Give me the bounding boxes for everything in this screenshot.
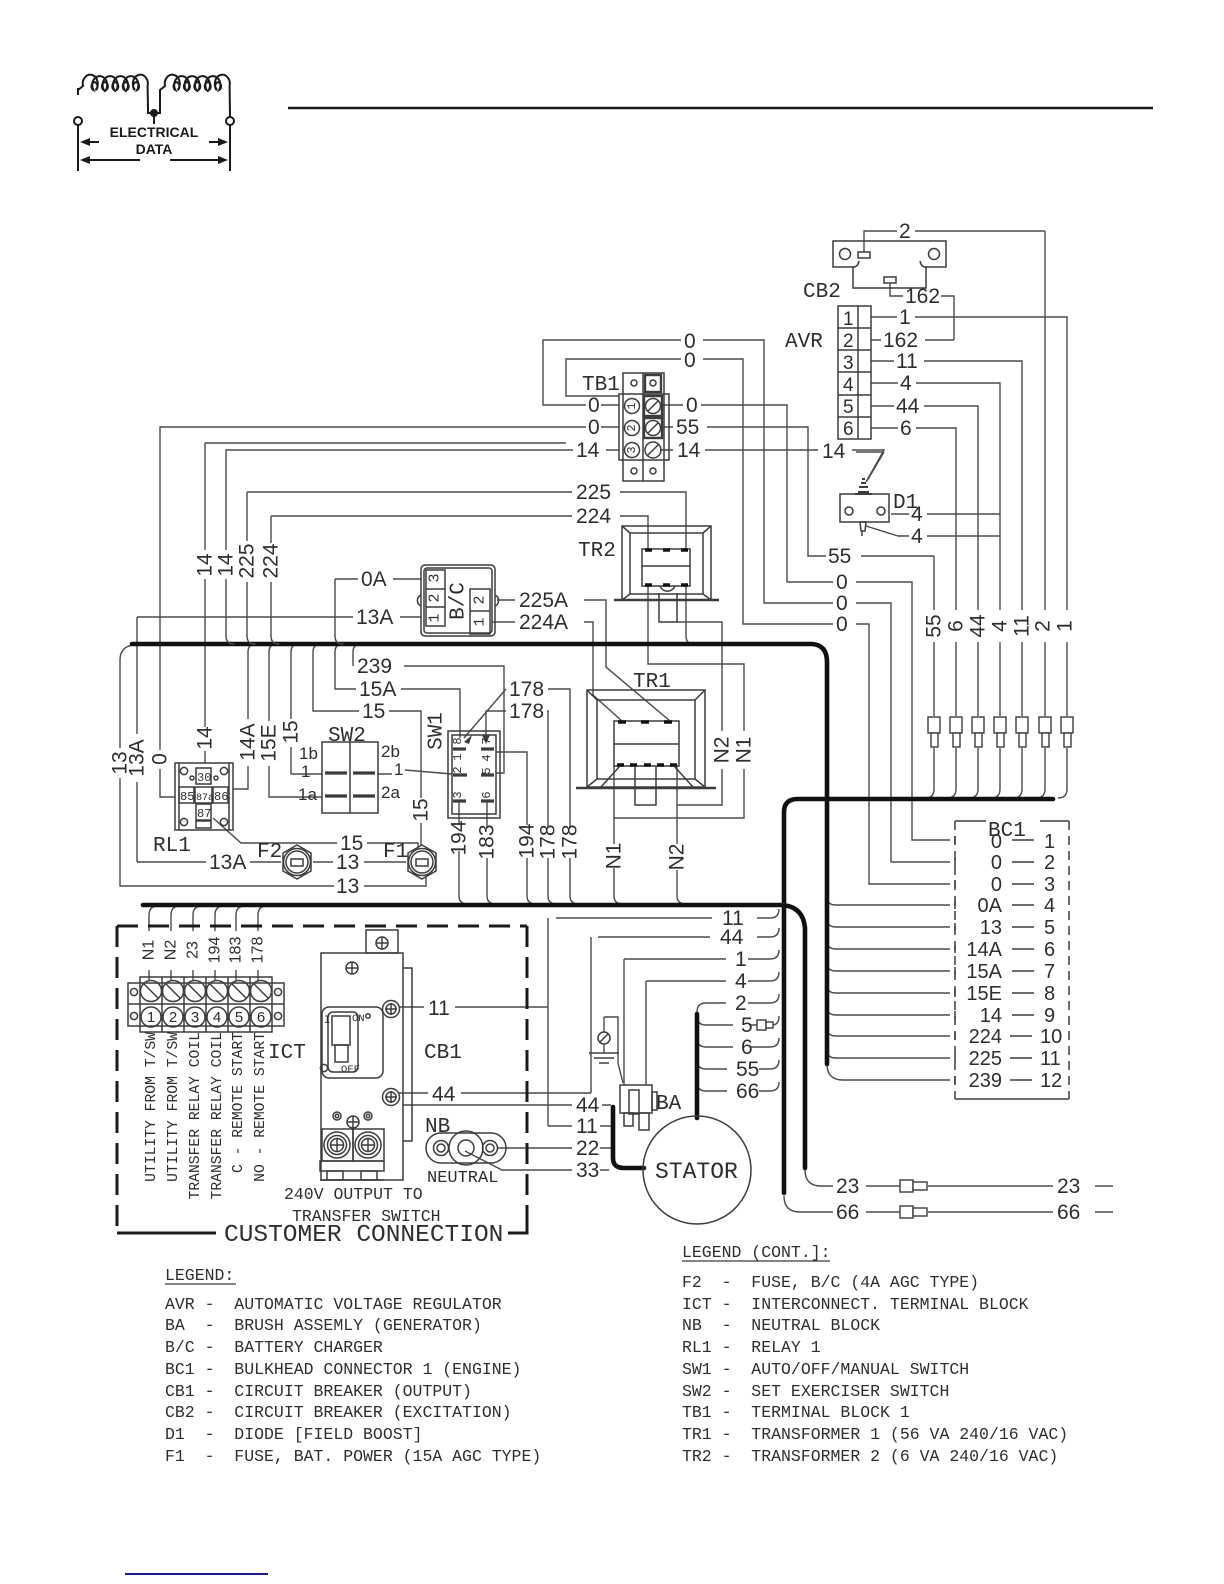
svg-text:TR1 - TRANSFORMER 1 (56 VA 24: TR1 - TRANSFORMER 1 (56 VA 240/16 VAC) <box>682 1425 1068 1444</box>
wire 224A B/C to TR1 <box>492 622 622 721</box>
svg-text:CB2: CB2 <box>803 281 841 304</box>
wire BC1 row7 15A <box>827 963 950 971</box>
transformer TR1 frame <box>587 690 705 787</box>
svg-text:1: 1 <box>625 402 639 409</box>
wire 4 D1 to riser <box>891 513 1000 515</box>
svg-text:N1: N1 <box>733 737 756 764</box>
svg-text:11: 11 <box>576 1115 598 1138</box>
svg-text:4: 4 <box>900 372 912 395</box>
svg-text:2: 2 <box>1044 852 1055 874</box>
svg-text:4: 4 <box>911 503 923 526</box>
svg-text:55: 55 <box>736 1058 759 1081</box>
svg-text:2: 2 <box>472 595 489 604</box>
neutral block NB <box>426 1133 506 1163</box>
svg-text:224A: 224A <box>519 611 568 634</box>
voltage regulator AVR terminal strip <box>838 306 871 439</box>
wire 13A B/C to left riser <box>137 617 421 862</box>
svg-text:5: 5 <box>741 1014 753 1037</box>
svg-text:15A: 15A <box>359 678 396 701</box>
svg-text:33: 33 <box>576 1159 599 1182</box>
svg-text:2: 2 <box>735 992 747 1015</box>
connector splice wire 66 <box>900 1206 913 1218</box>
wire ground strap to BA <box>604 1017 623 1083</box>
transformer TR2 coil <box>642 549 690 586</box>
svg-text:11: 11 <box>1011 615 1034 637</box>
svg-text:1: 1 <box>451 753 465 760</box>
wire N1 TR1 lead to harness <box>614 766 623 904</box>
svg-text:NEUTRAL: NEUTRAL <box>427 1169 498 1188</box>
svg-text:55: 55 <box>676 416 699 439</box>
svg-text:2a: 2a <box>381 783 400 802</box>
wire 178 SW1-8 row <box>464 689 579 904</box>
wire 178 harness to ICT-6 <box>258 906 267 981</box>
svg-text:22: 22 <box>576 1137 599 1160</box>
svg-text:0: 0 <box>836 571 848 594</box>
harness bold stator top lead <box>695 1014 700 1118</box>
wire BC1 row8 15E <box>827 985 950 993</box>
wire TR2 lead right to harness <box>686 586 694 644</box>
svg-text:2: 2 <box>1032 620 1055 632</box>
svg-text:6: 6 <box>480 791 494 798</box>
battery charger B/C <box>421 565 495 636</box>
svg-text:44: 44 <box>576 1094 600 1117</box>
wire 0 net-A TB1-1 left to BC1-2 <box>543 340 950 862</box>
svg-text:AVR: AVR <box>785 331 823 354</box>
svg-text:0: 0 <box>991 831 1002 853</box>
svg-text:14: 14 <box>576 439 600 462</box>
svg-text:86: 86 <box>214 790 228 804</box>
svg-text:N2: N2 <box>666 844 689 871</box>
svg-text:STATOR: STATOR <box>655 1159 738 1185</box>
wire 225A B/C to TR1 <box>497 600 670 721</box>
svg-text:5: 5 <box>235 1009 243 1026</box>
svg-text:55: 55 <box>923 614 946 637</box>
wire 23 harness to ICT-3 <box>193 906 202 981</box>
svg-text:F1: F1 <box>383 841 408 864</box>
svg-text:178: 178 <box>559 824 582 859</box>
svg-text:0: 0 <box>149 753 172 765</box>
svg-text:225: 225 <box>236 543 259 578</box>
transformer TR1 coil <box>614 721 679 766</box>
svg-text:1: 1 <box>735 948 747 971</box>
svg-text:178: 178 <box>509 700 544 723</box>
svg-text:0: 0 <box>836 592 848 615</box>
svg-text:SW1 - AUTO/OFF/MANUAL SWITCH: SW1 - AUTO/OFF/MANUAL SWITCH <box>682 1360 969 1379</box>
wire 15E harness to SW2-1a <box>269 644 322 797</box>
wire 1 BA to harness <box>624 950 779 1085</box>
svg-text:4: 4 <box>843 375 854 396</box>
svg-text:F2: F2 <box>257 841 282 864</box>
svg-text:194: 194 <box>516 823 539 858</box>
svg-text:4: 4 <box>480 754 494 761</box>
svg-text:1: 1 <box>472 617 489 626</box>
svg-text:3: 3 <box>843 353 854 374</box>
svg-text:3: 3 <box>451 791 465 798</box>
svg-text:15: 15 <box>280 720 303 743</box>
CB1 base <box>320 1161 384 1171</box>
logo coil left <box>78 75 148 110</box>
wire 66 stator row <box>697 1082 779 1091</box>
svg-text:NO - REMOTE START: NO - REMOTE START <box>253 1032 269 1182</box>
svg-text:1: 1 <box>899 306 911 329</box>
logo center junction wires <box>148 110 160 124</box>
CB1 screw terminal 44 <box>383 1089 400 1106</box>
svg-text:66: 66 <box>736 1080 759 1103</box>
exerciser switch SW2 <box>322 742 378 813</box>
svg-text:ICT: ICT <box>268 1042 306 1065</box>
svg-text:162: 162 <box>883 329 918 352</box>
svg-text:14A: 14A <box>966 939 1002 961</box>
logo arrows row2 <box>87 159 221 161</box>
svg-text:4: 4 <box>213 1009 221 1026</box>
svg-text:AVR - AUTOMATIC VOLTAGE REGUL: AVR - AUTOMATIC VOLTAGE REGULATOR <box>165 1295 502 1314</box>
svg-text:15E: 15E <box>966 983 1002 1005</box>
wire SW2 to SW1-2 <box>378 770 452 774</box>
svg-text:BA: BA <box>656 1093 682 1116</box>
svg-text:13: 13 <box>980 917 1002 939</box>
svg-text:UTILITY FROM T/SW: UTILITY FROM T/SW <box>144 1032 160 1182</box>
wire 224 to TR2 <box>271 516 648 636</box>
svg-text:1: 1 <box>147 1009 155 1026</box>
svg-text:BC1 - BULKHEAD CONNECTOR 1 (E: BC1 - BULKHEAD CONNECTOR 1 (ENGINE) <box>165 1360 521 1379</box>
wire 4 D1 cathode to riser <box>866 526 1000 536</box>
svg-text:0: 0 <box>836 613 848 636</box>
connector splice on riser 4 <box>994 717 1006 733</box>
connector splice on riser 1 <box>1061 717 1073 733</box>
wire BC1 row10 224 <box>827 1028 950 1036</box>
wire 55 TB1-2 right to harness <box>662 427 934 789</box>
svg-text:DATA: DATA <box>136 141 173 157</box>
logo arrows row1 <box>87 141 221 143</box>
wire 23 harness to right <box>805 1170 1113 1186</box>
customer connection dashed border <box>117 925 527 928</box>
svg-text:13A: 13A <box>209 851 246 874</box>
generator stator <box>643 1116 751 1224</box>
wire 15 RL1-87 to F1 top <box>213 818 418 848</box>
svg-text:2: 2 <box>169 1009 177 1026</box>
svg-text:4: 4 <box>735 970 747 993</box>
svg-text:4: 4 <box>911 525 923 548</box>
svg-text:178: 178 <box>250 937 267 964</box>
svg-text:1a: 1a <box>298 785 317 804</box>
wire 14 AVR area to D1 anode <box>856 452 884 481</box>
svg-text:178: 178 <box>537 824 560 859</box>
svg-text:225: 225 <box>576 481 611 504</box>
svg-text:1: 1 <box>301 762 310 781</box>
svg-text:0: 0 <box>686 394 698 417</box>
svg-text:23: 23 <box>836 1175 859 1198</box>
svg-text:N2: N2 <box>163 940 180 961</box>
svg-text:0A: 0A <box>978 895 1003 917</box>
svg-text:11: 11 <box>896 350 918 373</box>
wire 1 AVR-1 to riser <box>871 317 1067 798</box>
svg-text:8: 8 <box>1044 983 1055 1005</box>
svg-text:2: 2 <box>427 593 444 602</box>
bottom blue rule <box>125 1573 268 1575</box>
bulkhead connector BC1 box <box>955 821 1069 1099</box>
harness bold wire right <box>784 799 1053 1193</box>
svg-text:ICT - INTERCONNECT. TERMINAL: ICT - INTERCONNECT. TERMINAL BLOCK <box>682 1295 1029 1314</box>
svg-text:66: 66 <box>1057 1201 1080 1224</box>
svg-text:ELECTRICAL: ELECTRICAL <box>110 124 199 140</box>
svg-text:224: 224 <box>969 1026 1002 1048</box>
wire 13A riser to F2 <box>137 861 281 863</box>
svg-text:B/C: B/C <box>448 582 471 620</box>
BC1 row ticks <box>954 836 956 1084</box>
svg-text:66: 66 <box>836 1201 859 1224</box>
wire 4 AVR-4 to riser <box>871 383 1000 798</box>
svg-text:7: 7 <box>1044 961 1055 983</box>
wire BC1 row6 14A <box>827 941 950 949</box>
svg-text:4: 4 <box>1044 895 1055 917</box>
svg-text:TR2: TR2 <box>578 540 616 563</box>
wire 44 stator lead <box>403 1104 611 1106</box>
wire 11 CB1 to stator and harness <box>399 909 779 1126</box>
wire 22 NB to stator <box>497 1147 611 1149</box>
circuit breaker CB1 body <box>366 930 398 953</box>
wire BC1 row4 0A <box>827 897 950 905</box>
svg-text:44: 44 <box>967 614 990 638</box>
wire N2 TR1 lead to harness <box>677 766 686 904</box>
wire 0 net-B TB1-1 right to BC1-1 <box>662 405 950 840</box>
connector splice on riser 6 <box>950 717 962 733</box>
svg-text:1: 1 <box>843 309 854 330</box>
svg-text:240V OUTPUT TO: 240V OUTPUT TO <box>284 1185 423 1204</box>
svg-text:11: 11 <box>428 997 450 1020</box>
connector splice on riser 2 <box>1039 717 1051 733</box>
wire N2 harness to ICT-2 <box>171 906 180 981</box>
wire 239 harness to SW1-5 <box>353 644 504 773</box>
wire BC1 row5 13 <box>827 919 950 927</box>
svg-text:0: 0 <box>991 874 1002 896</box>
logo right terminal <box>226 117 234 125</box>
svg-text:UTILITY FROM T/SW: UTILITY FROM T/SW <box>166 1032 182 1182</box>
CB1 output lugs <box>322 1129 353 1161</box>
svg-text:CB1: CB1 <box>424 1042 462 1065</box>
transformer TR2 pedestal <box>659 593 677 622</box>
ICT screws row <box>141 981 162 1002</box>
svg-text:44: 44 <box>896 395 920 418</box>
svg-text:44: 44 <box>432 1083 456 1106</box>
wire 178 SW1-7 row <box>486 711 557 904</box>
svg-text:TRANSFER RELAY COIL: TRANSFER RELAY COIL <box>188 1032 204 1199</box>
svg-text:1: 1 <box>394 760 403 779</box>
connector splice on riser 44 <box>972 717 984 733</box>
svg-text:TRANSFER RELAY COIL: TRANSFER RELAY COIL <box>210 1032 226 1199</box>
wire 0A B/C to harness <box>335 579 421 636</box>
svg-text:N1: N1 <box>141 940 158 961</box>
svg-text:3: 3 <box>625 446 639 453</box>
fuse F2 <box>283 845 311 879</box>
svg-text:15A: 15A <box>966 961 1002 983</box>
svg-text:SW1: SW1 <box>426 712 449 750</box>
svg-text:SW2: SW2 <box>328 725 366 748</box>
brush assembly BA <box>620 1085 652 1113</box>
switch SW1 <box>448 731 500 818</box>
wire 66 harness to right <box>784 1196 1113 1212</box>
svg-text:C - REMOTE START: C - REMOTE START <box>231 1032 247 1173</box>
svg-text:85: 85 <box>180 790 194 804</box>
svg-text:1b: 1b <box>299 744 318 763</box>
BC1 row dashes <box>1010 840 1034 1080</box>
svg-text:I: I <box>324 1015 331 1027</box>
svg-text:RL1: RL1 <box>153 835 191 858</box>
svg-text:2b: 2b <box>381 742 400 761</box>
svg-text:10: 10 <box>1040 1026 1062 1048</box>
terminal block ICT <box>128 983 284 1026</box>
svg-text:87a: 87a <box>196 793 214 804</box>
TB1 screw 2 <box>644 418 662 438</box>
svg-text:6: 6 <box>741 1036 753 1059</box>
wire 33 NB to stator <box>465 1151 609 1170</box>
svg-text:0: 0 <box>991 852 1002 874</box>
svg-text:15E: 15E <box>258 724 281 761</box>
harness bold wire upper <box>132 644 827 1064</box>
svg-text:N2: N2 <box>711 737 734 764</box>
svg-text:162: 162 <box>905 285 940 308</box>
CB1 screw terminal 11 <box>383 1001 400 1018</box>
svg-text:3: 3 <box>1044 874 1055 896</box>
TB1 pole circles 1-3 <box>625 399 640 414</box>
terminal block TB1 <box>623 373 664 481</box>
svg-text:225A: 225A <box>519 589 568 612</box>
svg-text:NB: NB <box>425 1116 450 1139</box>
svg-text:5: 5 <box>843 397 854 418</box>
svg-text:13: 13 <box>336 875 359 898</box>
harness merge curves upper <box>160 636 343 644</box>
svg-text:12: 12 <box>1040 1070 1062 1092</box>
connector splice wire 23 <box>900 1180 913 1192</box>
svg-text:CB2 - CIRCUIT BREAKER (EXCITA: CB2 - CIRCUIT BREAKER (EXCITATION) <box>165 1403 512 1422</box>
logo arrowheads <box>80 138 90 146</box>
connector splice wire 5 <box>757 1020 766 1030</box>
svg-text:44: 44 <box>720 926 744 949</box>
TB1 screw 1 <box>644 396 662 416</box>
wire 225 to TR2 <box>247 492 686 636</box>
svg-text:7: 7 <box>480 737 494 744</box>
svg-text:B/C - BATTERY CHARGER: B/C - BATTERY CHARGER <box>165 1338 383 1357</box>
transformer TR1 pedestal and fan <box>601 766 693 805</box>
arrowhead 178 to SW1-8 <box>464 735 472 744</box>
svg-text:15: 15 <box>362 700 385 723</box>
svg-text:224: 224 <box>576 505 611 528</box>
wire 14A harness to RL1-86 <box>233 644 256 789</box>
svg-text:NB - NEUTRAL BLOCK: NB - NEUTRAL BLOCK <box>682 1316 880 1335</box>
svg-text:TB1 - TERMINAL BLOCK 1: TB1 - TERMINAL BLOCK 1 <box>682 1403 910 1422</box>
wire 15 harness to SW2-1 <box>291 644 322 774</box>
CB1 rocker switch <box>322 1007 383 1078</box>
TB1 screw 3 <box>645 442 661 458</box>
logo coil right <box>160 75 230 117</box>
svg-text:14A: 14A <box>237 723 260 760</box>
circuit breaker CB2 <box>833 241 946 288</box>
wire 0 net-D TB1-2 left to RL1-85 <box>160 427 619 797</box>
svg-text:14: 14 <box>980 1005 1002 1027</box>
wire 0 net-C TB1 top to BC1-3 <box>566 359 950 884</box>
ground symbol <box>598 1032 610 1044</box>
svg-text:55: 55 <box>828 545 851 568</box>
svg-text:183: 183 <box>228 937 245 964</box>
svg-text:13A: 13A <box>356 606 393 629</box>
arrowhead 178 to SW1-7 <box>482 735 490 744</box>
fuse F1 <box>408 845 436 879</box>
svg-text:CB1 - CIRCUIT BREAKER (OUTPUT: CB1 - CIRCUIT BREAKER (OUTPUT) <box>165 1382 472 1401</box>
wire 2 CB2 to riser <box>864 231 1045 798</box>
svg-text:6: 6 <box>945 620 968 632</box>
logo left terminal <box>74 117 82 125</box>
svg-text:8: 8 <box>451 737 465 744</box>
wire BC1 row9 14 <box>827 1007 950 1015</box>
svg-text:9: 9 <box>1044 1005 1055 1027</box>
svg-text:LEGEND (CONT.]:: LEGEND (CONT.]: <box>682 1243 831 1262</box>
svg-text:0: 0 <box>684 349 696 372</box>
svg-text:F1 - FUSE, BAT. POWER (15A A: F1 - FUSE, BAT. POWER (15A AGC TYPE) <box>165 1447 541 1466</box>
svg-text:23: 23 <box>1057 1175 1080 1198</box>
svg-text:SW2 - SET EXERCISER SWITCH: SW2 - SET EXERCISER SWITCH <box>682 1382 949 1401</box>
diode D1 <box>840 494 889 522</box>
wire 2 stator to harness <box>697 994 779 1012</box>
svg-text:0: 0 <box>588 394 600 417</box>
connector splice on riser 11 <box>1016 717 1028 733</box>
harness bold wire lower <box>143 905 805 1168</box>
svg-text:3: 3 <box>191 1009 199 1026</box>
wire 15A harness to SW1-8 <box>335 644 460 738</box>
svg-text:225: 225 <box>969 1048 1002 1070</box>
relay RL1 <box>175 763 233 830</box>
transformer TR2 frame <box>622 526 711 600</box>
wire 14 TB1-3 left to RL1-30 <box>205 443 619 763</box>
svg-text:14: 14 <box>194 726 217 750</box>
wire 5 stator row <box>697 1016 779 1025</box>
wire TR2 lead left to N1 loop <box>614 586 744 818</box>
wire BC1 row12 239 <box>827 1064 950 1080</box>
wire 15 harness to F1 <box>313 644 421 845</box>
svg-text:1: 1 <box>1044 831 1055 853</box>
svg-text:4: 4 <box>989 620 1012 632</box>
svg-text:13A: 13A <box>126 739 149 776</box>
svg-text:224: 224 <box>260 543 283 578</box>
svg-text:30: 30 <box>197 771 211 785</box>
svg-text:2: 2 <box>625 424 639 431</box>
svg-text:13: 13 <box>336 851 359 874</box>
svg-text:194: 194 <box>448 820 471 855</box>
svg-text:3: 3 <box>427 573 444 582</box>
svg-text:F2 - FUSE, B/C (4A AGC TYPE): F2 - FUSE, B/C (4A AGC TYPE) <box>682 1273 979 1292</box>
svg-text:2: 2 <box>899 220 911 243</box>
svg-text:1: 1 <box>427 613 444 622</box>
wire 194 SW1-4 to harness <box>496 752 536 904</box>
svg-text:N1: N1 <box>603 843 626 870</box>
svg-text:6: 6 <box>843 419 854 440</box>
wire BC1 row11 225 <box>827 1050 950 1058</box>
svg-text:5: 5 <box>480 767 494 774</box>
wire 183 harness to ICT-5 <box>236 906 245 981</box>
wire 6 stator row <box>697 1038 779 1047</box>
logo junction dot <box>150 109 158 117</box>
wire 4 BA to harness <box>646 972 779 1085</box>
harness bold stator left lead <box>613 1107 644 1168</box>
wire 44 AVR-5 to riser <box>871 406 978 798</box>
svg-text:239: 239 <box>357 655 392 678</box>
svg-text:CUSTOMER CONNECTION: CUSTOMER CONNECTION <box>224 1222 503 1249</box>
wire 14 TB1-3 right to D1 <box>660 450 884 482</box>
svg-text:TR1: TR1 <box>633 671 671 694</box>
wire N1 harness to ICT-1 <box>149 906 158 981</box>
top horizontal rule <box>288 107 1153 109</box>
svg-text:RL1 - RELAY 1: RL1 - RELAY 1 <box>682 1338 821 1357</box>
ICT numbered poles <box>141 1007 161 1027</box>
svg-text:LEGEND:: LEGEND: <box>165 1266 234 1285</box>
